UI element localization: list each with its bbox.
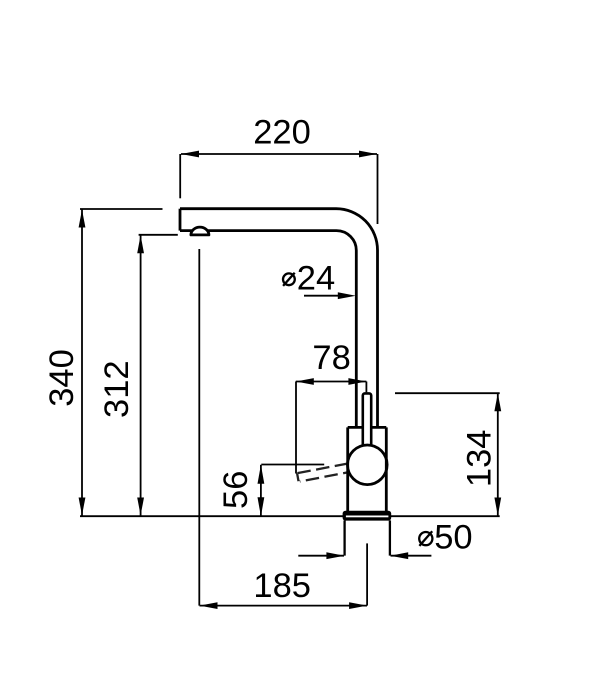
svg-text:50: 50: [434, 519, 472, 557]
svg-text:312: 312: [98, 360, 136, 418]
svg-text:24: 24: [297, 259, 335, 297]
svg-text:185: 185: [253, 567, 311, 605]
svg-text:340: 340: [43, 349, 81, 407]
svg-text:220: 220: [253, 113, 311, 151]
svg-text:134: 134: [461, 430, 499, 488]
svg-text:78: 78: [312, 339, 350, 377]
svg-text:56: 56: [217, 471, 255, 509]
